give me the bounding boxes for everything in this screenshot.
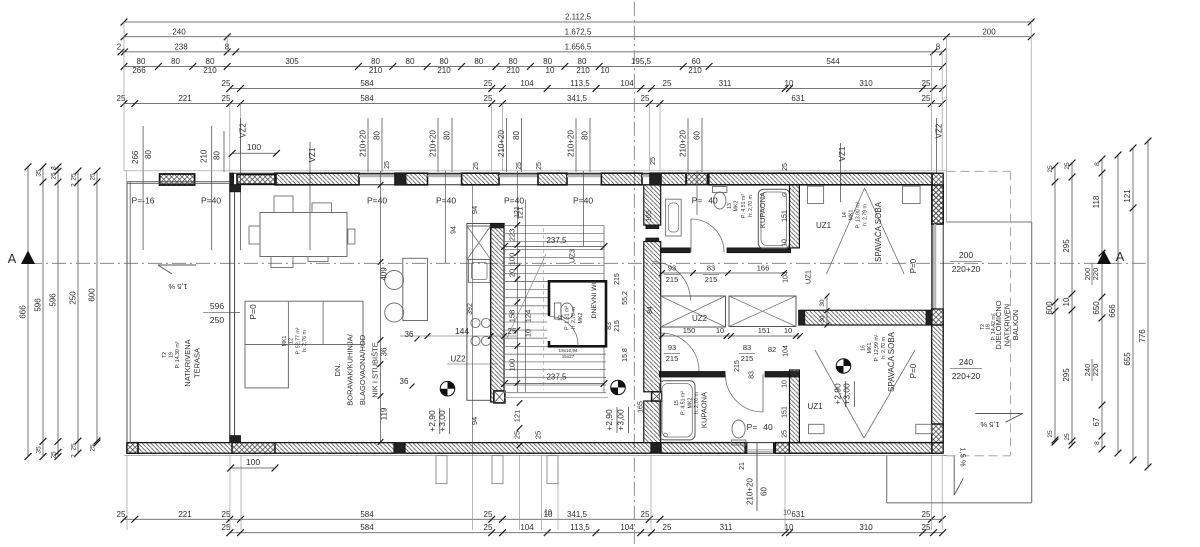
svg-text:36: 36 xyxy=(400,377,409,386)
svg-text:215: 215 xyxy=(614,273,621,285)
svg-text:200: 200 xyxy=(982,27,996,36)
svg-text:223: 223 xyxy=(508,229,517,242)
svg-text:VZ2: VZ2 xyxy=(934,123,943,138)
bottom dimension row A xyxy=(124,518,943,520)
svg-text:80: 80 xyxy=(474,57,483,66)
svg-text:BORAVAK/KUHINJA/: BORAVAK/KUHINJA/ xyxy=(346,333,355,405)
svg-text:13: 13 xyxy=(727,203,733,209)
svg-text:25: 25 xyxy=(782,430,789,438)
party wall bedrooms xyxy=(799,310,932,325)
svg-text:295: 295 xyxy=(1062,368,1071,382)
svg-text:1.656,5: 1.656,5 xyxy=(565,42,592,51)
island stools xyxy=(385,271,404,290)
svg-text:25: 25 xyxy=(782,163,789,171)
svg-text:10: 10 xyxy=(782,380,789,388)
svg-text:2.112,5: 2.112,5 xyxy=(565,13,592,22)
svg-text:P: 1,31 m²: P: 1,31 m² xyxy=(565,306,571,330)
footing rects below wall xyxy=(436,456,447,484)
svg-text:10: 10 xyxy=(783,510,791,517)
svg-text:25: 25 xyxy=(534,431,543,439)
svg-text:25: 25 xyxy=(222,94,231,103)
wall bathroom/bedroom upper xyxy=(790,185,800,248)
svg-text:311: 311 xyxy=(720,523,733,532)
sink xyxy=(469,259,491,282)
svg-text:80: 80 xyxy=(373,131,382,140)
svg-text:121: 121 xyxy=(514,206,521,218)
svg-text:36: 36 xyxy=(380,347,389,356)
glass wall terrace/living xyxy=(229,185,231,443)
level marker kitchen xyxy=(440,381,455,396)
sofa xyxy=(245,301,363,344)
svg-text:80: 80 xyxy=(578,57,587,66)
svg-text:210: 210 xyxy=(203,66,217,75)
svg-text:67: 67 xyxy=(1092,417,1101,426)
svg-text:BALKON: BALKON xyxy=(1011,310,1020,340)
svg-text:8: 8 xyxy=(936,42,941,51)
svg-text:12: 12 xyxy=(558,315,564,321)
svg-text:210+20: 210+20 xyxy=(497,130,506,157)
svg-text:94: 94 xyxy=(451,226,458,234)
svg-text:A: A xyxy=(8,251,17,266)
svg-text:12: 12 xyxy=(289,338,295,344)
svg-text:210: 210 xyxy=(506,66,520,75)
svg-text:VZ2: VZ2 xyxy=(238,123,247,138)
svg-text:UZ3: UZ3 xyxy=(568,249,577,263)
svg-text:60: 60 xyxy=(692,57,701,66)
svg-text:221: 221 xyxy=(178,510,192,519)
svg-text:+2,90: +2,90 xyxy=(427,410,437,432)
svg-text:596: 596 xyxy=(49,293,58,307)
svg-text:83: 83 xyxy=(707,264,715,273)
svg-text:266: 266 xyxy=(131,150,140,164)
svg-text:84: 84 xyxy=(647,306,654,314)
toilet lower bath xyxy=(732,420,745,438)
svg-text:UZ1: UZ1 xyxy=(807,402,823,411)
stairs dim 237,5 bottom xyxy=(505,383,605,385)
svg-text:NATKRIVENA: NATKRIVENA xyxy=(183,339,192,386)
svg-text:250: 250 xyxy=(210,315,224,325)
svg-text:310: 310 xyxy=(859,523,873,532)
svg-text:2: 2 xyxy=(71,454,78,458)
stairs lower flight xyxy=(505,346,607,348)
svg-text:21: 21 xyxy=(739,462,746,470)
closet UZ2 left xyxy=(661,296,726,327)
svg-text:10: 10 xyxy=(524,329,533,337)
svg-text:80: 80 xyxy=(543,57,552,66)
svg-text:P=0: P=0 xyxy=(248,304,258,320)
svg-text:25: 25 xyxy=(71,173,78,181)
svg-text:80: 80 xyxy=(509,57,518,66)
svg-text:83: 83 xyxy=(743,343,751,352)
svg-text:h: 2,70 m: h: 2,70 m xyxy=(748,195,754,217)
svg-text:250: 250 xyxy=(69,291,78,305)
svg-text:8: 8 xyxy=(1094,441,1101,445)
svg-text:100: 100 xyxy=(508,253,517,266)
svg-text:25: 25 xyxy=(484,79,493,88)
svg-text:94: 94 xyxy=(470,417,479,425)
svg-text:80: 80 xyxy=(581,131,590,140)
svg-text:220: 220 xyxy=(1091,268,1100,281)
svg-text:10: 10 xyxy=(782,239,789,247)
svg-text:94: 94 xyxy=(470,206,479,214)
window in bottom wall (100) xyxy=(232,443,275,454)
upper bedroom nightstands xyxy=(808,186,824,204)
svg-text:25: 25 xyxy=(922,79,931,88)
lower bed V xyxy=(815,350,864,438)
svg-text:MK2: MK2 xyxy=(734,201,740,212)
svg-text:DN.: DN. xyxy=(333,364,342,377)
svg-text:h: 2,79 m: h: 2,79 m xyxy=(863,204,869,226)
svg-text:MK1: MK1 xyxy=(282,336,288,347)
svg-text:210: 210 xyxy=(200,149,209,163)
svg-text:10: 10 xyxy=(785,523,794,532)
svg-text:NIK I STUBIŠTE: NIK I STUBIŠTE xyxy=(371,342,380,397)
corner pillar NE xyxy=(932,173,943,224)
svg-text:MK2: MK2 xyxy=(578,313,584,324)
window W1 (terrace) xyxy=(237,175,276,185)
svg-text:158: 158 xyxy=(508,310,517,323)
svg-text:80: 80 xyxy=(171,57,180,66)
svg-text:220+20: 220+20 xyxy=(952,371,981,381)
ventilation axis VZ2 left xyxy=(240,118,242,250)
svg-text:25: 25 xyxy=(222,523,231,532)
svg-text:10: 10 xyxy=(544,510,552,517)
svg-text:80: 80 xyxy=(406,57,415,66)
svg-text:118: 118 xyxy=(1092,195,1101,208)
svg-text:10: 10 xyxy=(785,79,794,88)
ventilation axis VZ1 left xyxy=(309,142,311,250)
svg-text:VZ1: VZ1 xyxy=(838,146,847,161)
window xyxy=(499,173,538,175)
svg-text:25: 25 xyxy=(384,161,391,169)
upper bathroom door xyxy=(691,219,724,252)
svg-text:151: 151 xyxy=(782,406,789,418)
lower bathroom door xyxy=(726,375,764,413)
dimension row 1 (2.112,5) xyxy=(124,21,1031,23)
svg-text:25: 25 xyxy=(922,94,931,103)
svg-text:104: 104 xyxy=(620,523,634,532)
svg-text:25: 25 xyxy=(51,172,58,180)
svg-text:596: 596 xyxy=(210,301,224,311)
svg-text:631: 631 xyxy=(791,94,805,103)
svg-text:P: 4,51 m²: P: 4,51 m² xyxy=(741,194,747,218)
svg-text:25: 25 xyxy=(922,523,931,532)
svg-text:166: 166 xyxy=(757,264,770,273)
svg-text:P=40: P=40 xyxy=(436,196,456,206)
svg-text:8: 8 xyxy=(1094,162,1101,166)
svg-text:151: 151 xyxy=(758,326,771,335)
svg-text:776: 776 xyxy=(1138,329,1147,343)
bathtub lower xyxy=(659,381,695,440)
svg-text:215: 215 xyxy=(614,320,621,332)
svg-text:215: 215 xyxy=(666,354,679,363)
svg-text:SPAVAĆA SOBA: SPAVAĆA SOBA xyxy=(874,201,883,262)
svg-text:121: 121 xyxy=(512,410,521,423)
svg-text:121: 121 xyxy=(1123,189,1132,203)
svg-text:215: 215 xyxy=(741,354,754,363)
svg-text:150: 150 xyxy=(683,326,696,335)
svg-text:113,5: 113,5 xyxy=(570,79,590,88)
wall segment xyxy=(601,173,642,185)
balcony slope arrow upper xyxy=(975,413,1022,415)
window xyxy=(642,173,650,175)
stairs dim column B xyxy=(524,200,526,392)
svg-text:25: 25 xyxy=(71,443,78,451)
svg-text:2: 2 xyxy=(71,183,78,187)
svg-text:210+20: 210+20 xyxy=(429,130,438,157)
svg-text:584: 584 xyxy=(360,94,374,103)
svg-text:80: 80 xyxy=(440,57,449,66)
svg-text:80: 80 xyxy=(137,57,146,66)
svg-text:25: 25 xyxy=(1047,165,1054,173)
window xyxy=(567,173,601,175)
svg-text:14: 14 xyxy=(842,212,848,218)
svg-text:25: 25 xyxy=(222,510,231,519)
svg-text:1,5 %: 1,5 % xyxy=(980,420,1000,429)
svg-text:25: 25 xyxy=(663,79,672,88)
svg-text:210: 210 xyxy=(369,66,383,75)
svg-text:10: 10 xyxy=(1062,297,1071,306)
svg-text:104: 104 xyxy=(520,79,534,88)
svg-text:30: 30 xyxy=(819,299,826,307)
dimension row 2 (240 / 1.672,5 / 200) xyxy=(124,36,1031,38)
terrace parapet left xyxy=(126,182,128,443)
svg-text:165: 165 xyxy=(638,401,645,413)
stairs dim 237,5 top xyxy=(505,246,605,248)
washbasin xyxy=(666,199,682,236)
section centreline A-A xyxy=(28,262,1148,264)
svg-text:UZ2: UZ2 xyxy=(450,355,466,364)
svg-text:19: 19 xyxy=(169,352,175,358)
svg-text:40: 40 xyxy=(708,196,718,206)
wall segment long xyxy=(709,173,932,185)
svg-text:266: 266 xyxy=(132,66,146,75)
svg-text:210: 210 xyxy=(437,66,451,75)
svg-text:584: 584 xyxy=(360,523,374,532)
svg-text:10: 10 xyxy=(784,326,792,335)
WC toilet xyxy=(561,303,574,319)
svg-text:20: 20 xyxy=(508,269,517,277)
svg-text:P=40: P=40 xyxy=(367,196,387,206)
svg-text:P=40: P=40 xyxy=(504,196,524,206)
svg-text:409: 409 xyxy=(380,267,389,281)
svg-text:237,5: 237,5 xyxy=(546,236,567,245)
svg-text:215: 215 xyxy=(705,275,718,284)
balcony outline xyxy=(947,221,1032,223)
svg-text:2: 2 xyxy=(117,42,122,51)
chairs around table xyxy=(274,196,293,213)
svg-text:210+20: 210+20 xyxy=(679,130,688,157)
svg-text:93: 93 xyxy=(668,264,676,273)
svg-text:25: 25 xyxy=(516,162,523,170)
stairs mid flight xyxy=(505,281,550,283)
stair direction line xyxy=(507,254,546,338)
balcony dashed roof edge xyxy=(947,170,1011,172)
svg-text:1,5 %: 1,5 % xyxy=(959,447,968,467)
svg-text:35: 35 xyxy=(36,169,43,177)
right dimension columns xyxy=(1054,166,1056,442)
svg-text:295: 295 xyxy=(1062,239,1071,253)
svg-text:584: 584 xyxy=(360,510,374,519)
masonry pillar xyxy=(686,173,707,185)
svg-text:210+20: 210+20 xyxy=(359,130,368,157)
svg-text:25: 25 xyxy=(663,523,672,532)
svg-text:655: 655 xyxy=(1123,352,1132,366)
svg-text:15,8: 15,8 xyxy=(622,348,629,362)
window xyxy=(428,173,462,175)
svg-text:P=: P= xyxy=(692,196,703,206)
entrance door opening in bottom wall xyxy=(745,443,747,454)
svg-text:25: 25 xyxy=(484,510,493,519)
svg-text:16: 16 xyxy=(861,345,867,351)
svg-text:83: 83 xyxy=(606,322,613,330)
wall segment xyxy=(538,173,567,185)
svg-text:210: 210 xyxy=(576,66,590,75)
bottom wall band xyxy=(127,442,943,444)
svg-text:600: 600 xyxy=(88,288,97,302)
upper bathroom bottom wall xyxy=(661,248,691,253)
kitchen island xyxy=(403,258,428,320)
svg-text:80: 80 xyxy=(144,150,153,159)
svg-text:240: 240 xyxy=(172,27,186,36)
svg-text:144: 144 xyxy=(455,326,469,336)
svg-text:25: 25 xyxy=(507,326,517,336)
dimension row 6 (25/221/25/584/25/341,5/25/631/25) xyxy=(124,103,943,105)
svg-text:10: 10 xyxy=(716,326,724,335)
svg-text:80: 80 xyxy=(213,151,222,160)
right outer wall xyxy=(931,173,933,453)
svg-text:83: 83 xyxy=(749,371,756,379)
window xyxy=(359,173,395,175)
svg-text:P=40: P=40 xyxy=(573,196,593,206)
level marker stairs xyxy=(611,380,626,395)
svg-text:113,5: 113,5 xyxy=(570,523,590,532)
svg-text:310: 310 xyxy=(859,79,873,88)
section marker A right xyxy=(1097,251,1111,265)
svg-text:596: 596 xyxy=(34,298,43,312)
svg-text:h: 2,76 m: h: 2,76 m xyxy=(302,330,308,352)
kitchen wall xyxy=(491,224,504,403)
svg-text:544: 544 xyxy=(826,57,840,66)
svg-text:80: 80 xyxy=(371,57,380,66)
svg-text:631: 631 xyxy=(791,510,805,519)
svg-text:25: 25 xyxy=(1064,433,1071,441)
upper bed V xyxy=(827,188,865,274)
svg-text:60: 60 xyxy=(693,131,702,140)
svg-text:600: 600 xyxy=(1045,301,1054,315)
closet UZ2 right xyxy=(729,296,796,327)
svg-text:55,2: 55,2 xyxy=(622,291,629,305)
svg-text:584: 584 xyxy=(360,79,374,88)
wall segment xyxy=(395,173,428,185)
svg-text:+3,00: +3,00 xyxy=(842,383,852,405)
dim 100 below wall xyxy=(231,467,275,469)
svg-text:KUPAONA: KUPAONA xyxy=(758,192,767,228)
balcony slope arrow lower xyxy=(953,456,955,495)
svg-text:+2,90: +2,90 xyxy=(833,383,843,405)
svg-text:100: 100 xyxy=(246,457,260,467)
svg-text:311: 311 xyxy=(719,79,732,88)
dim 100 above wall xyxy=(232,152,276,154)
svg-text:+2,90: +2,90 xyxy=(604,409,614,431)
svg-text:40: 40 xyxy=(763,422,773,432)
svg-text:25: 25 xyxy=(473,162,480,170)
svg-text:1.672,5: 1.672,5 xyxy=(565,27,592,36)
svg-text:25: 25 xyxy=(650,157,657,165)
wall segment xyxy=(462,173,499,185)
svg-text:80: 80 xyxy=(206,57,215,66)
svg-text:MK1: MK1 xyxy=(867,343,873,354)
terrace slope arrow xyxy=(158,264,196,266)
svg-text:DNEVNI WC: DNEVNI WC xyxy=(591,279,598,318)
vertical centreline xyxy=(633,2,635,545)
svg-text:36: 36 xyxy=(405,330,414,339)
svg-text:104: 104 xyxy=(783,345,790,357)
wall segment xyxy=(275,173,359,185)
corridor dims upper xyxy=(662,272,784,274)
svg-text:93: 93 xyxy=(668,343,676,352)
corner pillar SE xyxy=(932,443,944,454)
dining table xyxy=(260,213,347,257)
svg-text:UZ1: UZ1 xyxy=(816,221,832,230)
section marker A left xyxy=(21,251,35,265)
tall unit with X xyxy=(467,226,491,259)
svg-text:P=0: P=0 xyxy=(909,258,918,273)
svg-text:650: 650 xyxy=(1092,301,1101,315)
svg-text:221: 221 xyxy=(178,94,192,103)
wall corridor/bedroom lower xyxy=(790,370,800,443)
left dimension columns xyxy=(27,167,29,457)
svg-text:80: 80 xyxy=(512,131,521,140)
stairs dim column A xyxy=(516,171,518,392)
svg-text:P=0: P=0 xyxy=(909,363,918,378)
dimension row 4 (80/266 chain) xyxy=(124,65,943,67)
svg-text:KUPAONA: KUPAONA xyxy=(700,392,709,428)
svg-text:104: 104 xyxy=(783,271,790,283)
corridor dims lower xyxy=(662,335,800,337)
svg-text:MK2: MK2 xyxy=(688,398,694,409)
svg-text:25: 25 xyxy=(90,173,97,181)
svg-text:MK1: MK1 xyxy=(849,210,855,221)
svg-text:30: 30 xyxy=(819,315,826,323)
svg-text:210+20: 210+20 xyxy=(746,478,755,505)
svg-text:215: 215 xyxy=(734,360,741,372)
svg-text:60: 60 xyxy=(760,487,769,496)
svg-text:UZ1: UZ1 xyxy=(804,270,813,284)
svg-text:25: 25 xyxy=(1064,162,1071,170)
svg-text:P=40: P=40 xyxy=(201,196,221,206)
svg-text:P: 52,77 m²: P: 52,77 m² xyxy=(296,327,302,354)
svg-text:210+20: 210+20 xyxy=(567,130,576,157)
svg-text:P: 14,30 m²: P: 14,30 m² xyxy=(175,341,181,368)
svg-text:10: 10 xyxy=(601,66,610,75)
svg-text:25: 25 xyxy=(222,79,231,88)
ventilation axis VZ1 right xyxy=(839,143,841,202)
bathtub upper xyxy=(758,189,789,248)
lower bathroom top wall xyxy=(659,372,725,378)
svg-text:104: 104 xyxy=(620,79,634,88)
svg-text:666: 666 xyxy=(19,305,28,319)
extension lines bottom xyxy=(126,456,128,531)
svg-text:151: 151 xyxy=(782,210,789,222)
svg-text:305: 305 xyxy=(285,57,299,66)
svg-text:119: 119 xyxy=(380,407,389,420)
cooktop xyxy=(471,318,480,327)
ventilation axis VZ2 right xyxy=(936,118,938,173)
svg-text:25: 25 xyxy=(641,94,650,103)
svg-text:35: 35 xyxy=(36,446,43,454)
svg-text:VZ1: VZ1 xyxy=(308,147,317,162)
